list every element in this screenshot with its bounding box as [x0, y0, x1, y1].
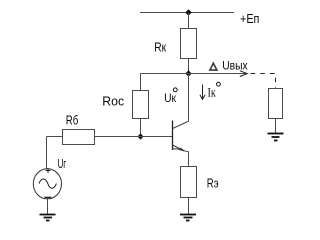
resistor Rк	[181, 29, 197, 59]
wire: output line from collector node	[189, 73, 246, 75]
output arrowhead	[240, 71, 247, 77]
wire: Roc bottom lead to base node	[140, 119, 142, 137]
node: base junction	[137, 133, 143, 139]
transistor Q1 collector diagonal	[173, 121, 189, 128]
wire: collector node to Roc top corner	[141, 73, 189, 75]
resistor Rос	[133, 91, 149, 119]
wire: Roc top lead	[140, 74, 142, 91]
svg-text:Rб: Rб	[66, 113, 79, 128]
current arrow Iк (down arrow)	[200, 85, 205, 100]
wire: source bottom lead	[47, 198, 49, 214]
svg-text:Rос: Rос	[102, 94, 124, 109]
label delta (Δ)	[210, 63, 217, 70]
ground (under source)	[40, 215, 56, 221]
load resistor (output)	[269, 89, 283, 119]
wire: base wire Rб to transistor	[95, 136, 173, 138]
transistor Q1 emitter diagonal	[173, 145, 185, 151]
transistor Q1 emitter arrow lower edge	[173, 149, 185, 151]
ground (under load)	[268, 134, 284, 141]
node: rail / Rk junction	[185, 9, 191, 15]
wire: dashed connection to load	[251, 74, 276, 89]
wire: load bottom lead	[275, 119, 277, 134]
wire: +Ep supply rail	[140, 12, 234, 14]
svg-text:Rэ: Rэ	[207, 176, 219, 191]
resistor Rэ	[181, 167, 197, 198]
degree mark of Uк	[173, 88, 177, 92]
wire: down to source Ur	[46, 137, 48, 170]
wire: Rб left lead	[47, 136, 63, 138]
ground (under Rэ)	[180, 215, 196, 221]
source minus polarity	[45, 196, 52, 198]
svg-text:Uг: Uг	[58, 156, 67, 171]
wire: collector lead	[188, 74, 190, 122]
resistor Rб	[63, 130, 95, 145]
svg-text:Uк: Uк	[164, 91, 177, 105]
svg-text:+Еп: +Еп	[240, 11, 259, 26]
wire: rail to Rk top	[188, 13, 190, 29]
transistor Q1 emitter arrow tip	[180, 148, 185, 151]
wire: emitter corner to lead	[184, 151, 188, 167]
node: collector junction	[185, 70, 191, 76]
source Ur circle	[33, 169, 61, 199]
svg-text:Uвых: Uвых	[222, 60, 248, 72]
svg-text:Rк: Rк	[154, 39, 166, 54]
svg-text:Iк: Iк	[208, 85, 217, 100]
source plus polarity	[46, 168, 51, 173]
transistor Q1 base bar	[172, 121, 174, 151]
source sine wave	[39, 179, 56, 188]
wire: Rk bottom to collector node	[188, 59, 190, 74]
wire: Rэ bottom lead	[188, 198, 190, 215]
degree mark of Iк	[217, 82, 221, 86]
